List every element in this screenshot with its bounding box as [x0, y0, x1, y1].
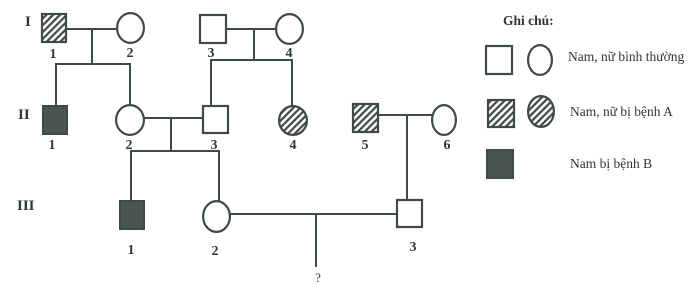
- svg-text:3: 3: [211, 138, 218, 153]
- label 3 under II-3: [211, 138, 218, 153]
- individual III-3: male normal (square): [397, 200, 422, 227]
- individual II-2: female normal (circle): [116, 105, 144, 135]
- svg-text:4: 4: [286, 46, 293, 61]
- wire drop to II-1: [55, 63, 57, 106]
- individual I-2: female normal (circle): [117, 13, 144, 43]
- wire drop from couple II-2/II-3: [170, 118, 172, 151]
- svg-text:?: ?: [315, 270, 321, 285]
- svg-text:Ghi chú:: Ghi chú:: [503, 13, 554, 28]
- legend disease-A male hatched square: [488, 100, 514, 127]
- svg-text:1: 1: [128, 243, 135, 258]
- svg-text:4: 4: [290, 138, 297, 153]
- wire drop to II-3: [210, 59, 212, 106]
- wire drop to III-1: [130, 150, 132, 201]
- svg-text:1: 1: [50, 47, 57, 62]
- legend text Nam, nữ bị bệnh A: [570, 104, 673, 119]
- svg-text:Nam, nữ bình thường: Nam, nữ bình thường: [568, 49, 685, 64]
- wire drop from couple I-1/I-2: [91, 29, 93, 64]
- svg-text:Nam, nữ bị bệnh A: Nam, nữ bị bệnh A: [570, 104, 673, 119]
- wire sibling bar of family I-3/I-4: [210, 59, 293, 61]
- individual III-1: male affected disease B (filled square): [120, 201, 144, 229]
- wire couple I-3 to I-4: [226, 28, 276, 30]
- legend title Ghi chú:: [503, 13, 554, 28]
- svg-text:6: 6: [444, 138, 451, 153]
- legend text Nam bị bệnh B: [570, 156, 652, 171]
- individual I-1: male affected disease A (hatched square): [42, 14, 66, 42]
- wire couple III-2 to III-3: [230, 213, 397, 215]
- unknown child label ?: [315, 270, 321, 285]
- wire sibling bar of family II-2/II-3: [130, 150, 220, 152]
- wire drop to unknown child ?: [315, 214, 317, 267]
- individual III-2: female normal (circle): [203, 201, 230, 232]
- label 4 under I-4: [286, 46, 293, 61]
- svg-text:2: 2: [212, 244, 219, 259]
- wire couple I-1 to I-2: [66, 28, 117, 30]
- wire couple II-5 to II-6: [378, 114, 432, 116]
- wire drop from couple I-3/I-4: [253, 29, 255, 61]
- svg-text:Nam bị bệnh B: Nam bị bệnh B: [570, 156, 652, 171]
- wire drop to II-2: [129, 63, 131, 105]
- svg-text:III: III: [17, 198, 35, 214]
- individual I-4: female normal (circle): [276, 14, 303, 44]
- svg-text:2: 2: [126, 138, 133, 153]
- generation label III: [17, 198, 35, 214]
- svg-text:3: 3: [208, 46, 215, 61]
- label 1 under I-1: [50, 47, 57, 62]
- individual II-1: male affected disease B (filled square): [43, 106, 67, 134]
- label 2 under I-2: [127, 46, 134, 61]
- generation label II: [18, 107, 30, 123]
- wire couple II-2 to II-3: [144, 117, 203, 119]
- label 3 under III-3: [410, 240, 417, 255]
- label 4 under II-4: [290, 138, 297, 153]
- legend text Nam, nữ bình thường: [568, 49, 685, 64]
- svg-text:2: 2: [127, 46, 134, 61]
- legend normal female circle: [528, 45, 552, 75]
- label 2 under III-2: [212, 244, 219, 259]
- individual II-6: female normal (circle): [432, 105, 456, 135]
- label 1 under III-1: [128, 243, 135, 258]
- generation label I: [25, 14, 31, 30]
- individual II-5: male affected disease A (hatched square): [353, 104, 378, 132]
- wire drop to III-2: [218, 150, 220, 202]
- individual I-3: male normal (square): [200, 15, 226, 43]
- svg-text:5: 5: [362, 138, 369, 153]
- svg-text:1: 1: [49, 138, 56, 153]
- individual II-4: female affected disease A (hatched circle): [279, 106, 307, 135]
- legend normal male square: [486, 46, 512, 74]
- svg-text:II: II: [18, 107, 30, 123]
- svg-text:I: I: [25, 14, 31, 30]
- individual II-3: male normal (square): [203, 106, 228, 133]
- svg-text:3: 3: [410, 240, 417, 255]
- label 5 under II-5: [362, 138, 369, 153]
- wire drop to II-4: [291, 59, 293, 106]
- label 3 under I-3: [208, 46, 215, 61]
- label 6 under II-6: [444, 138, 451, 153]
- wire sibling bar of family I-1/I-2: [55, 63, 131, 65]
- legend disease-B male filled square: [487, 150, 513, 178]
- wire drop from couple II-5/II-6 to III-3: [406, 115, 408, 200]
- label 1 under II-1: [49, 138, 56, 153]
- legend disease-A female hatched circle: [528, 96, 554, 127]
- label 2 under II-2: [126, 138, 133, 153]
